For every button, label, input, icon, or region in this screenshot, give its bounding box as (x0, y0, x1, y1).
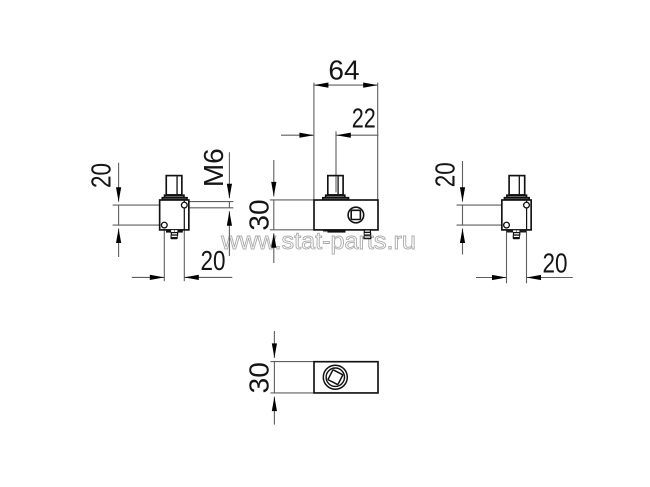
M6 ext line bottom (189, 207, 233, 209)
left-bottom 20 dim seg left (132, 276, 165, 278)
left view stud inner line (176, 176, 178, 194)
svg-text:22: 22 (352, 103, 376, 134)
bottom 30 ext top (270, 361, 313, 363)
center view stud inner line (337, 176, 339, 194)
right view flange upper (507, 195, 527, 197)
right 20 ext top (457, 204, 502, 206)
30 center dim shaft lower (273, 233, 275, 263)
dimension texts (86, 55, 568, 394)
svg-text:64: 64 (328, 55, 359, 86)
left-bottom 20 dim seg right (184, 276, 232, 278)
arrow 22 at centerline pointing left (336, 133, 351, 138)
center view grease nipple (364, 230, 370, 232)
bottom view inner circle (326, 368, 344, 386)
arrow 22 at left ext pointing right (299, 133, 314, 138)
left view body (160, 200, 189, 230)
svg-text:20: 20 (430, 162, 461, 187)
arrow leftbottom20 left pointing right (150, 275, 165, 280)
svg-text:20: 20 (86, 163, 117, 188)
bottom 30 dim shaft lower (273, 397, 275, 425)
arrow 30 center upper pointing down (271, 182, 276, 197)
svg-text:www.stat-parts.ru: www.stat-parts.ru (220, 228, 416, 255)
svg-text:20: 20 (543, 248, 568, 279)
arrow 64 right (363, 83, 378, 88)
M6 ext line top (hole tangent) (189, 201, 233, 203)
arrow rightbottom20 right pointing left (527, 275, 542, 280)
center view base band (323, 230, 345, 233)
left 20 dim shaft lower (118, 229, 120, 258)
right 20 ext bottom (457, 224, 502, 226)
left view stud (166, 176, 182, 195)
dim 22 left segment (281, 134, 314, 136)
arrow 30 center lower pointing up (271, 233, 276, 248)
center view flange lower (323, 198, 349, 200)
right-bottom 20 dim seg right (527, 277, 573, 279)
right view grease nipple (514, 233, 520, 235)
30 center ext bottom (270, 229, 314, 231)
arrow M6 lower pointing up (227, 211, 232, 226)
right view base band (507, 230, 526, 232)
right view hole bottom-left (504, 222, 510, 228)
right view stud (509, 176, 525, 195)
left view flange lower (162, 198, 187, 200)
center stud centerline (335, 131, 337, 192)
svg-text:30: 30 (244, 199, 275, 230)
right 20 dim shaft upper (462, 161, 464, 202)
center view stud (328, 176, 343, 195)
right view body inner edge line (526, 201, 528, 230)
M6 dim shaft upper (228, 152, 230, 198)
left view flange upper (165, 195, 184, 197)
bottom view drive square rotated (328, 370, 343, 385)
arrow left20 upper pointing down (116, 187, 121, 202)
right-bottom 20 dim seg left (476, 277, 507, 279)
M6 dim shaft lower (228, 211, 230, 256)
svg-text:20: 20 (201, 245, 226, 276)
right view stud inner line (518, 176, 520, 194)
left view base band (166, 230, 183, 233)
arrowheads (116, 83, 541, 412)
arrow leftbottom20 right pointing left (184, 275, 199, 280)
left-bottom 20 ext line a (hole2 x) (163, 228, 165, 281)
svg-text:30: 30 (244, 362, 275, 393)
dim 64 line (314, 84, 378, 86)
center view flange upper (326, 195, 345, 197)
left view grease nipple (171, 233, 177, 235)
left 20 ext top (hole1 center line) (113, 204, 160, 206)
arrow left20 lower pointing up (116, 229, 121, 244)
30 center dim shaft upper (273, 160, 275, 196)
right view body (502, 200, 531, 230)
center view body (314, 200, 378, 230)
left view hole top-right (181, 202, 187, 208)
arrow bottom30 lower pointing up (272, 397, 277, 412)
arrow M6 upper pointing down (227, 184, 232, 199)
center view drive circle (348, 207, 364, 223)
svg-text:M6: M6 (198, 148, 229, 187)
dim 22 right segment (336, 134, 378, 136)
right view flange lower (504, 198, 529, 200)
bottom 30 dim shaft upper (273, 331, 275, 358)
right view hole top-right (524, 202, 530, 208)
arrow right20 upper pointing down (460, 187, 465, 202)
right-bottom 20 ext line b (526, 228, 528, 283)
bottom view outer circle (323, 365, 347, 389)
center view drive square (351, 210, 360, 219)
ext line left of 64/22 (merges with center body left edge above body) (313, 83, 315, 200)
bottom view rect (314, 362, 378, 393)
bottom 30 ext bottom (270, 392, 313, 394)
center stud centerline inside stud (335, 176, 337, 192)
30 center ext top (270, 199, 314, 201)
left 20 dim shaft upper (118, 163, 120, 202)
ext line right of 64 (377, 83, 379, 200)
left view hole bottom-left (161, 222, 167, 228)
right-bottom 20 ext line a (506, 228, 508, 283)
arrow 64 left (314, 83, 329, 88)
left view body inner edge line (183, 201, 185, 230)
left 20 ext bottom (hole2 center line) (113, 224, 160, 226)
arrow rightbottom20 left pointing right (492, 275, 507, 280)
left-bottom 20 ext line b (hole1 x) (183, 228, 185, 281)
arrow bottom30 upper pointing down (272, 343, 277, 358)
arrow right20 lower pointing up (460, 229, 465, 244)
right 20 dim shaft lower (462, 229, 464, 255)
